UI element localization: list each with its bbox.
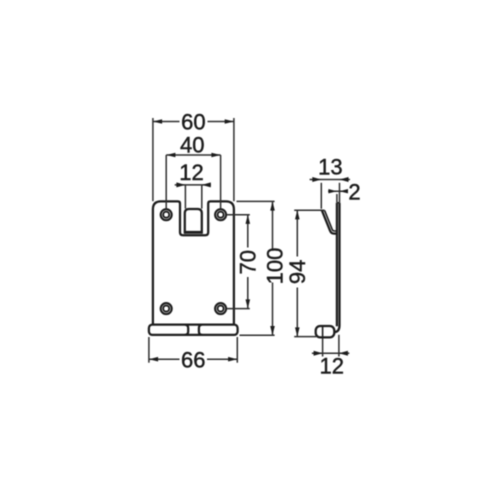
hole top-left inner	[163, 212, 169, 218]
svg-text:94: 94	[285, 260, 310, 284]
hole bottom-right inner	[218, 306, 224, 312]
ext line 100 top	[237, 200, 275, 202]
arrow 94 top	[295, 210, 300, 219]
hole top-right outer	[215, 209, 226, 220]
side view foot curl pill	[316, 326, 335, 337]
bracket body front view outline	[153, 201, 234, 324]
arrow 40 left	[166, 153, 175, 158]
dim line 70	[247, 215, 249, 309]
side view hook tab tip cap	[322, 209, 325, 211]
dim line bottom 12	[312, 352, 349, 354]
hole bottom-left inner	[163, 306, 169, 312]
hole top-right inner	[218, 212, 224, 218]
svg-text:100: 100	[263, 248, 288, 285]
ext line bottom12 right	[338, 335, 340, 357]
arrow bottom12 left (outside)	[314, 351, 323, 356]
tab bend thick line	[184, 231, 202, 234]
dim line 13	[310, 179, 350, 181]
arrow 2 left (outside)	[328, 189, 337, 193]
ext line 94 bottom	[294, 336, 316, 338]
ext line 40 left	[165, 155, 167, 209]
svg-text:40: 40	[180, 132, 204, 157]
svg-text:60: 60	[181, 109, 205, 134]
hole bottom-right outer	[215, 303, 226, 314]
svg-text:66: 66	[181, 347, 205, 372]
ext line 13 right	[339, 183, 341, 203]
arrow 66 left	[149, 357, 158, 362]
arrow 100 top	[270, 201, 275, 210]
ext line 13 left	[320, 183, 322, 209]
ext line 40 right	[220, 155, 222, 209]
ext line 100 bottom	[240, 334, 275, 336]
arrow bottom12 right (outside)	[339, 351, 348, 356]
svg-text:2: 2	[348, 179, 360, 204]
ext line 60 right	[233, 118, 235, 201]
svg-text:70: 70	[236, 250, 261, 274]
ext line 2 left	[336, 194, 338, 203]
dim line 94	[296, 210, 298, 336]
arrow 70 bottom	[246, 299, 251, 308]
arrow 70 top	[246, 215, 251, 224]
dim line 100	[272, 201, 274, 335]
hole bottom-left outer	[161, 303, 172, 314]
side view plate right face with bottom bend	[334, 203, 339, 332]
ext line 70 top	[226, 214, 250, 216]
base flange (front view)	[149, 325, 238, 335]
flange middle divider left	[185, 325, 188, 335]
arrow 12 left (outside)	[176, 182, 185, 187]
ext line 70 bottom	[226, 308, 250, 310]
flange middle divider right	[199, 325, 202, 335]
arrow 60 left	[153, 119, 162, 124]
hole top-left outer	[161, 209, 172, 220]
dim line 66	[149, 358, 237, 360]
side view plate left face	[336, 203, 338, 327]
arrow 66 right	[228, 357, 237, 362]
dim line 60	[153, 121, 234, 123]
ext line 60 left	[152, 118, 154, 201]
svg-text:12: 12	[319, 354, 343, 379]
ext line 12 left	[184, 185, 186, 209]
ext line 66 left	[148, 337, 150, 363]
arrow 13 left (outside)	[312, 177, 321, 182]
side view plate top edge	[337, 202, 340, 204]
side view foot inner line	[322, 326, 324, 337]
svg-text:13: 13	[318, 154, 342, 179]
dim line 12 top	[175, 184, 211, 186]
arrow 2 right (outside)	[340, 189, 349, 193]
side view hook tab outer edge	[322, 210, 337, 233]
arrow 100 bottom	[270, 326, 275, 335]
arrow 40 right	[211, 153, 220, 158]
ext line bottom12 left	[322, 339, 324, 357]
bent tab seen through slot (front view)	[185, 209, 202, 234]
side view hook tab inner edge	[325, 210, 337, 231]
svg-text:12: 12	[179, 160, 203, 185]
ext line 94 top	[294, 209, 324, 211]
ext line 66 right	[236, 337, 238, 363]
arrow 94 bottom	[295, 327, 300, 336]
arrow 12 right (outside)	[202, 182, 211, 187]
arrow 60 right	[225, 119, 234, 124]
dim line 40	[166, 154, 220, 156]
ext line 12 right	[201, 185, 203, 209]
arrow 13 right (outside)	[340, 177, 349, 182]
dim line 2	[328, 190, 348, 192]
